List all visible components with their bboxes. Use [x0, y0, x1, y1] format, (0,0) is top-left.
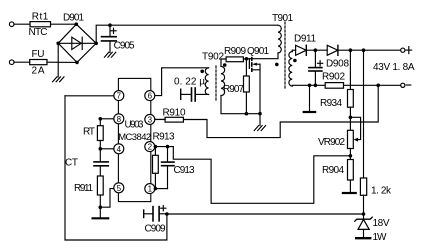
node cap bottom	[314, 84, 318, 88]
svg-text:R904: R904	[322, 165, 344, 176]
svg-text:2: 2	[148, 143, 153, 152]
wire feedback net	[183, 85, 378, 137]
diode D911	[292, 34, 327, 56]
node zener junction	[362, 212, 366, 216]
node R934 bottom junction	[349, 116, 353, 120]
ground	[104, 52, 115, 57]
capacitor C905	[102, 25, 136, 52]
svg-text:2A: 2A	[32, 66, 45, 77]
svg-text:FU: FU	[32, 49, 45, 60]
svg-text:C905: C905	[114, 41, 135, 52]
node bottom vertex	[75, 61, 79, 65]
wire feedback to VR902	[173, 147, 350, 204]
svg-text:R934: R934	[320, 98, 342, 109]
svg-text:1: 1	[148, 185, 153, 194]
svg-text:VR902: VR902	[318, 137, 345, 148]
node C909 plus	[165, 212, 169, 216]
svg-text:CT: CT	[65, 158, 78, 169]
pin 7	[114, 91, 124, 101]
svg-text:43V 1. 8A: 43V 1. 8A	[373, 62, 415, 73]
transistor Q901	[246, 46, 269, 114]
ground	[304, 85, 315, 112]
node T902 left polarity dot	[200, 70, 204, 74]
node R934 tap	[349, 48, 353, 52]
ground	[254, 114, 265, 131]
svg-text:D901: D901	[63, 13, 84, 24]
bridge rectifier D901	[58, 13, 96, 63]
input terminal bottom	[9, 60, 14, 65]
wire	[252, 53, 278, 59]
node feedback tap	[376, 84, 380, 88]
svg-text:1. 2k: 1. 2k	[371, 186, 392, 197]
wire pin7 left	[65, 95, 114, 97]
diode D908	[326, 45, 400, 69]
node 1.2k tap	[362, 48, 366, 52]
resistor Rt1	[29, 12, 51, 39]
capacitor C909	[144, 206, 167, 235]
wire pin4	[100, 148, 114, 150]
svg-text:18V: 18V	[373, 218, 390, 229]
svg-text:7: 7	[117, 92, 122, 101]
wire pin3	[155, 118, 165, 120]
wire	[47, 61, 77, 63]
resistor R910	[155, 108, 186, 123]
zener diode 18V 1W	[355, 214, 390, 243]
resistor 1.2k	[360, 50, 392, 214]
node R907 bottom	[245, 112, 249, 116]
wire	[51, 23, 77, 25]
pin 5	[114, 183, 124, 193]
node right vertex	[94, 42, 98, 46]
resistor R909	[224, 46, 246, 62]
pin 6	[145, 91, 155, 101]
potentiometer VR902	[318, 117, 361, 148]
node T901 primary polarity dot	[275, 63, 279, 67]
resistor R911	[74, 176, 103, 207]
svg-text:6: 6	[148, 92, 153, 101]
capacitor 0.22u	[174, 77, 209, 102]
svg-text:4: 4	[117, 145, 122, 154]
svg-text:Q901: Q901	[247, 46, 269, 57]
capacitor C906	[309, 50, 323, 85]
svg-text:U903: U903	[125, 120, 145, 131]
node gate junction	[245, 57, 249, 61]
node source junction	[258, 112, 262, 116]
resistor R907	[223, 59, 249, 114]
svg-text:R911: R911	[74, 183, 93, 194]
wire	[14, 23, 30, 25]
wire pin2	[155, 146, 173, 148]
wire left rail	[65, 96, 167, 240]
capacitor CT	[65, 149, 108, 176]
wire	[14, 61, 30, 63]
svg-text:MC3842: MC3842	[118, 132, 151, 143]
node T901 secondary polarity dot	[293, 59, 297, 63]
wire T902 right bottom lead	[221, 96, 260, 114]
resistor RT	[83, 119, 103, 149]
resistor R913	[153, 132, 175, 189]
node R913 top	[154, 145, 158, 149]
svg-text:C913: C913	[174, 165, 195, 176]
ground	[343, 192, 356, 194]
node pin1 junction	[154, 187, 158, 191]
wire	[292, 84, 325, 87]
svg-text:NTC: NTC	[29, 27, 48, 38]
resistor R902	[322, 72, 345, 89]
pin 3	[145, 114, 155, 124]
IC U903 MC3842	[118, 78, 151, 201]
svg-text:R902: R902	[322, 72, 345, 83]
svg-text:0. 22 µ: 0. 22 µ	[174, 77, 205, 88]
wire pin8	[100, 118, 114, 120]
node ground tap	[308, 84, 312, 88]
wire	[344, 84, 401, 86]
node C913 top	[166, 145, 170, 149]
node pin4 junction	[99, 147, 103, 151]
node top vertex	[75, 22, 79, 26]
wire pin5	[100, 189, 114, 208]
svg-text:C909: C909	[145, 224, 166, 235]
svg-text:3: 3	[148, 116, 153, 125]
node RT top	[99, 117, 103, 121]
svg-text:T901: T901	[272, 13, 293, 24]
wire	[57, 43, 59, 77]
wire T902 right top lead	[221, 59, 226, 66]
pin 4	[114, 144, 124, 154]
input terminal top	[9, 22, 14, 27]
output terminal -	[401, 83, 405, 87]
svg-text:R909: R909	[224, 46, 246, 57]
node VR902/R904 junction	[349, 154, 353, 158]
resistor R934	[320, 50, 353, 117]
node T902 right polarity dot	[223, 63, 227, 67]
svg-text:R913: R913	[153, 132, 175, 143]
transformer T902	[202, 52, 225, 101]
capacitor C913	[155, 147, 195, 189]
node R911 bottom	[99, 205, 103, 209]
svg-text:8: 8	[117, 115, 122, 124]
ground	[93, 207, 109, 218]
svg-text:5: 5	[117, 184, 122, 193]
pin 8	[114, 114, 124, 124]
output terminal +	[401, 48, 405, 52]
transformer T901	[272, 13, 293, 88]
wire Vcc rail	[167, 213, 364, 215]
wire	[96, 25, 277, 43]
resistor R904	[322, 149, 353, 193]
svg-text:Rt1: Rt1	[32, 12, 49, 23]
wire pin6 to T902	[155, 68, 209, 96]
svg-text:RT: RT	[83, 127, 95, 138]
ground	[53, 77, 64, 82]
fuse FU 2A	[30, 49, 47, 77]
node D911/D908 junction	[314, 48, 318, 52]
svg-text:1W: 1W	[373, 232, 388, 243]
node C905 tap	[108, 23, 112, 27]
svg-text:D911: D911	[294, 34, 316, 45]
pin 1	[145, 184, 155, 194]
svg-text:R907: R907	[223, 84, 244, 95]
pin 2	[145, 142, 155, 152]
svg-text:D908: D908	[326, 59, 349, 70]
node left vertex	[56, 42, 60, 46]
